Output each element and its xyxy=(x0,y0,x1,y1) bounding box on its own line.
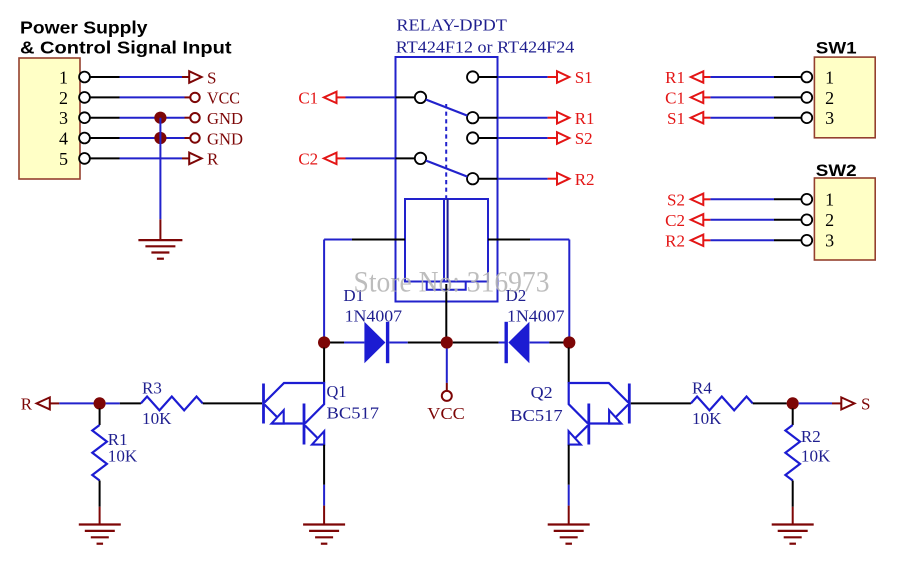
svg-text:10K: 10K xyxy=(692,409,722,428)
junction left (D1/Q1) xyxy=(318,336,330,348)
svg-text:S: S xyxy=(861,395,870,414)
svg-text:Store No: 316973: Store No: 316973 xyxy=(354,267,550,299)
wire R1 stub xyxy=(478,117,497,119)
svg-text:Q2: Q2 xyxy=(531,383,553,402)
port VCC circle xyxy=(190,93,199,102)
label SW1 R1 xyxy=(665,68,685,87)
svg-text:VCC: VCC xyxy=(207,89,240,108)
wire junction to S xyxy=(799,402,842,404)
port S arrow xyxy=(841,397,854,409)
wire D2 to right-dot xyxy=(530,342,564,344)
label SW2 S2 xyxy=(667,190,685,209)
wire R1 xyxy=(498,117,558,119)
resistor R3 xyxy=(141,397,203,411)
svg-text:3: 3 xyxy=(825,108,834,128)
wire SW2 R2 xyxy=(703,239,801,241)
relay coil box xyxy=(405,199,488,282)
wire junction to R2 xyxy=(792,408,794,425)
wire pin1 to S xyxy=(90,76,189,78)
svg-text:S1: S1 xyxy=(575,68,593,87)
ground (R1) xyxy=(79,525,121,544)
svg-text:R1: R1 xyxy=(575,109,595,128)
junction pin3/GND-bus xyxy=(154,112,166,124)
relay K1 body xyxy=(396,57,498,302)
pin circles SW2 xyxy=(801,194,812,246)
label RELAY-DPDT xyxy=(396,16,507,35)
svg-text:R2: R2 xyxy=(801,427,821,446)
svg-text:R2: R2 xyxy=(575,170,595,189)
wire S2 stub xyxy=(478,137,497,139)
pin circles SW1 xyxy=(801,72,812,124)
svg-text:& Control Signal Input: & Control Signal Input xyxy=(20,38,232,58)
label R1 value 10K xyxy=(108,447,138,466)
wire R2 xyxy=(498,178,558,180)
svg-text:2: 2 xyxy=(59,88,68,108)
port SW2 R2 arrow xyxy=(691,235,704,246)
label S xyxy=(207,68,216,87)
ground (R2) xyxy=(772,525,814,544)
wire C2 stub xyxy=(396,157,415,159)
port GND circle xyxy=(190,113,199,122)
label Q2 value BC517 xyxy=(510,406,563,425)
label S (output) xyxy=(861,395,870,414)
relay mechanical link (dashed) xyxy=(445,104,447,199)
svg-text:VCC: VCC xyxy=(427,404,465,423)
label SW1 S1 xyxy=(667,109,685,128)
svg-text:BC517: BC517 xyxy=(510,406,563,425)
svg-text:S2: S2 xyxy=(575,129,593,148)
port R arrow xyxy=(37,397,50,409)
relay switch arm 2 (C2-R2) xyxy=(426,161,468,177)
svg-text:Power Supply: Power Supply xyxy=(20,17,148,37)
svg-text:R: R xyxy=(207,150,219,169)
label R1 xyxy=(108,430,128,449)
svg-text:10K: 10K xyxy=(108,447,138,466)
diode D1 xyxy=(364,322,387,363)
wire C2 xyxy=(337,157,396,159)
resistor R2 xyxy=(785,425,800,481)
connector SW1 body xyxy=(814,57,875,138)
label SW2 R2 xyxy=(665,231,685,250)
pin numbers J1 1-5 xyxy=(59,67,68,168)
svg-text:GND: GND xyxy=(207,109,243,128)
label R3 value 10K xyxy=(142,409,172,428)
port R1 arrow xyxy=(557,112,569,124)
label VCC xyxy=(207,89,240,108)
label C1 xyxy=(298,89,318,108)
svg-text:S: S xyxy=(207,68,216,87)
svg-text:Q1: Q1 xyxy=(327,382,347,401)
wire Q2 base to R4 xyxy=(631,402,691,404)
pin circles J1 xyxy=(79,72,90,164)
watermark Store No: 316973 xyxy=(354,267,550,299)
junction right (D2/Q2) xyxy=(563,336,575,348)
svg-text:C2: C2 xyxy=(298,150,318,169)
junction R/R1/R3 xyxy=(94,397,106,409)
svg-text:R1: R1 xyxy=(665,68,685,87)
port SW1 C1 arrow xyxy=(691,92,704,103)
relay contact S2 circle xyxy=(467,132,478,143)
label SW1 xyxy=(816,38,857,57)
wire C1 xyxy=(337,96,396,98)
label GND xyxy=(207,109,243,128)
label R2 xyxy=(801,427,821,446)
wire coil left xyxy=(324,239,405,241)
label R4 value 10K xyxy=(692,409,722,428)
wire junction to R3 xyxy=(106,402,141,404)
label VCC (center) xyxy=(427,404,465,423)
label R2 xyxy=(575,170,595,189)
label R (input) xyxy=(21,395,33,414)
transistor Q2 xyxy=(569,383,630,445)
label SW2 C2 xyxy=(665,211,685,230)
wire left dot to Q1 collector xyxy=(323,348,325,384)
svg-text:C1: C1 xyxy=(298,89,318,108)
port S2 arrow xyxy=(557,132,569,144)
label SW1 C1 xyxy=(665,89,685,108)
label R2 value 10K xyxy=(801,447,831,466)
pin numbers SW1 1-3 xyxy=(825,67,834,128)
svg-text:BC517: BC517 xyxy=(327,404,380,423)
label Q2 xyxy=(531,383,553,402)
port C1 arrow xyxy=(324,92,337,103)
port GND circle xyxy=(190,133,199,142)
wire R2 to ground xyxy=(792,481,794,525)
svg-text:R2: R2 xyxy=(665,231,685,250)
svg-text:1N4007: 1N4007 xyxy=(507,307,565,326)
connector J1 body (power/control input) xyxy=(19,58,80,179)
port S arrow xyxy=(189,71,201,83)
wire S1 stub xyxy=(478,76,497,78)
svg-text:1: 1 xyxy=(59,67,68,87)
svg-text:4: 4 xyxy=(59,128,68,148)
svg-text:R4: R4 xyxy=(692,378,712,397)
pin numbers SW2 1-3 xyxy=(825,190,834,251)
title: Power Supply & Control Signal Input xyxy=(20,17,232,57)
label C2 xyxy=(298,150,318,169)
wire right dot to Q2 collector xyxy=(568,348,570,384)
wire right riser xyxy=(568,240,570,338)
wire C1 stub xyxy=(396,96,415,98)
wire SW2 S2 xyxy=(703,198,801,200)
junction VCC node xyxy=(441,336,453,348)
resistor R1 xyxy=(92,425,107,481)
wire pin4 to GND xyxy=(90,137,190,139)
ground (input GND) xyxy=(138,240,182,259)
port SW2 S2 arrow xyxy=(691,194,704,205)
port SW1 R1 arrow xyxy=(691,71,704,82)
wire Q1 emitter xyxy=(323,445,325,525)
wire SW2 C2 xyxy=(703,219,801,221)
label S2 xyxy=(575,129,593,148)
svg-text:S2: S2 xyxy=(667,190,685,209)
relay contact R2 circle xyxy=(467,173,478,184)
svg-text:SW1: SW1 xyxy=(816,38,857,57)
svg-text:2: 2 xyxy=(825,88,834,108)
svg-text:C2: C2 xyxy=(665,211,685,230)
relay contact S1 circle xyxy=(467,71,478,82)
ground (Q2) xyxy=(548,525,590,544)
wire coil bottom to VCC node xyxy=(445,284,447,337)
label D2 value 1N4007 xyxy=(507,307,565,326)
label RT424F12 or RT424F24 xyxy=(396,37,575,56)
wire center to D2 xyxy=(453,342,505,344)
wire R2 stub xyxy=(478,178,497,180)
wire pin2 to VCC xyxy=(90,96,190,98)
label R xyxy=(207,150,219,169)
relay contact R1 circle xyxy=(467,112,478,123)
svg-text:3: 3 xyxy=(825,231,834,251)
label D1 xyxy=(343,286,364,305)
svg-text:2: 2 xyxy=(825,210,834,230)
label D1 value 1N4007 xyxy=(345,307,403,326)
wire R3 to Q1 base xyxy=(203,402,262,404)
wire rail left-dot to D1 xyxy=(330,342,364,344)
port R arrow xyxy=(189,153,201,165)
label R4 xyxy=(692,378,712,397)
label Q1 value BC517 xyxy=(327,404,380,423)
svg-text:10K: 10K xyxy=(801,447,831,466)
svg-text:R: R xyxy=(21,395,33,414)
relay contact C1 circle xyxy=(415,92,426,103)
wire Q2 emitter xyxy=(568,445,570,525)
port C2 arrow xyxy=(324,153,337,164)
wire R4 to junction xyxy=(753,402,787,404)
label SW2 xyxy=(816,161,857,180)
svg-text:1N4007: 1N4007 xyxy=(345,307,403,326)
junction S/R2/R4 xyxy=(787,397,799,409)
wire junction to R1 xyxy=(99,408,101,425)
wire SW1 S1 xyxy=(703,117,801,119)
label GND xyxy=(207,129,243,148)
label S1 xyxy=(575,68,593,87)
ground (Q1) xyxy=(303,525,345,544)
wire S1 xyxy=(498,76,558,78)
port S1 arrow xyxy=(557,71,569,83)
wire VCC drop xyxy=(446,349,448,392)
wire R to junction xyxy=(50,402,94,404)
diode D2 xyxy=(506,322,529,363)
wire SW1 R1 xyxy=(703,76,801,78)
connector SW2 body xyxy=(814,178,875,260)
port SW2 C2 arrow xyxy=(691,214,704,225)
wire pin3 to GND xyxy=(90,117,190,119)
port VCC circle (center) xyxy=(442,391,452,401)
svg-text:GND: GND xyxy=(207,129,243,148)
junction pin4/GND-bus xyxy=(154,132,166,144)
svg-text:RELAY-DPDT: RELAY-DPDT xyxy=(396,16,507,35)
svg-text:RT424F12 or RT424F24: RT424F12 or RT424F24 xyxy=(396,37,575,56)
svg-text:C1: C1 xyxy=(665,89,685,108)
port R2 arrow xyxy=(557,173,569,185)
svg-text:10K: 10K xyxy=(142,409,172,428)
relay contact C2 circle xyxy=(415,153,426,164)
relay switch arm 1 (C1-R1) xyxy=(426,100,468,116)
svg-text:1: 1 xyxy=(825,190,834,210)
wire coil right xyxy=(488,239,569,241)
svg-text:5: 5 xyxy=(59,149,68,169)
svg-text:SW2: SW2 xyxy=(816,161,857,180)
wire R1 to ground xyxy=(99,481,101,525)
resistor R4 xyxy=(691,397,753,411)
port SW1 S1 arrow xyxy=(691,112,704,123)
label D2 xyxy=(506,286,527,305)
label Q1 xyxy=(327,382,347,401)
svg-text:R3: R3 xyxy=(142,378,162,397)
wire GND bus vertical xyxy=(159,118,161,240)
svg-text:3: 3 xyxy=(59,108,68,128)
svg-text:S1: S1 xyxy=(667,109,685,128)
wire SW1 C1 xyxy=(703,96,801,98)
wire S2 xyxy=(498,137,558,139)
transistor Q1 xyxy=(264,383,325,445)
wire D1 to center xyxy=(389,342,441,344)
wire left riser xyxy=(323,240,325,338)
relay coil bottom terminal (staple) xyxy=(427,282,466,290)
label R1 xyxy=(575,109,595,128)
label R3 xyxy=(142,378,162,397)
wire pin5 to R xyxy=(90,157,189,159)
svg-text:1: 1 xyxy=(825,67,834,87)
